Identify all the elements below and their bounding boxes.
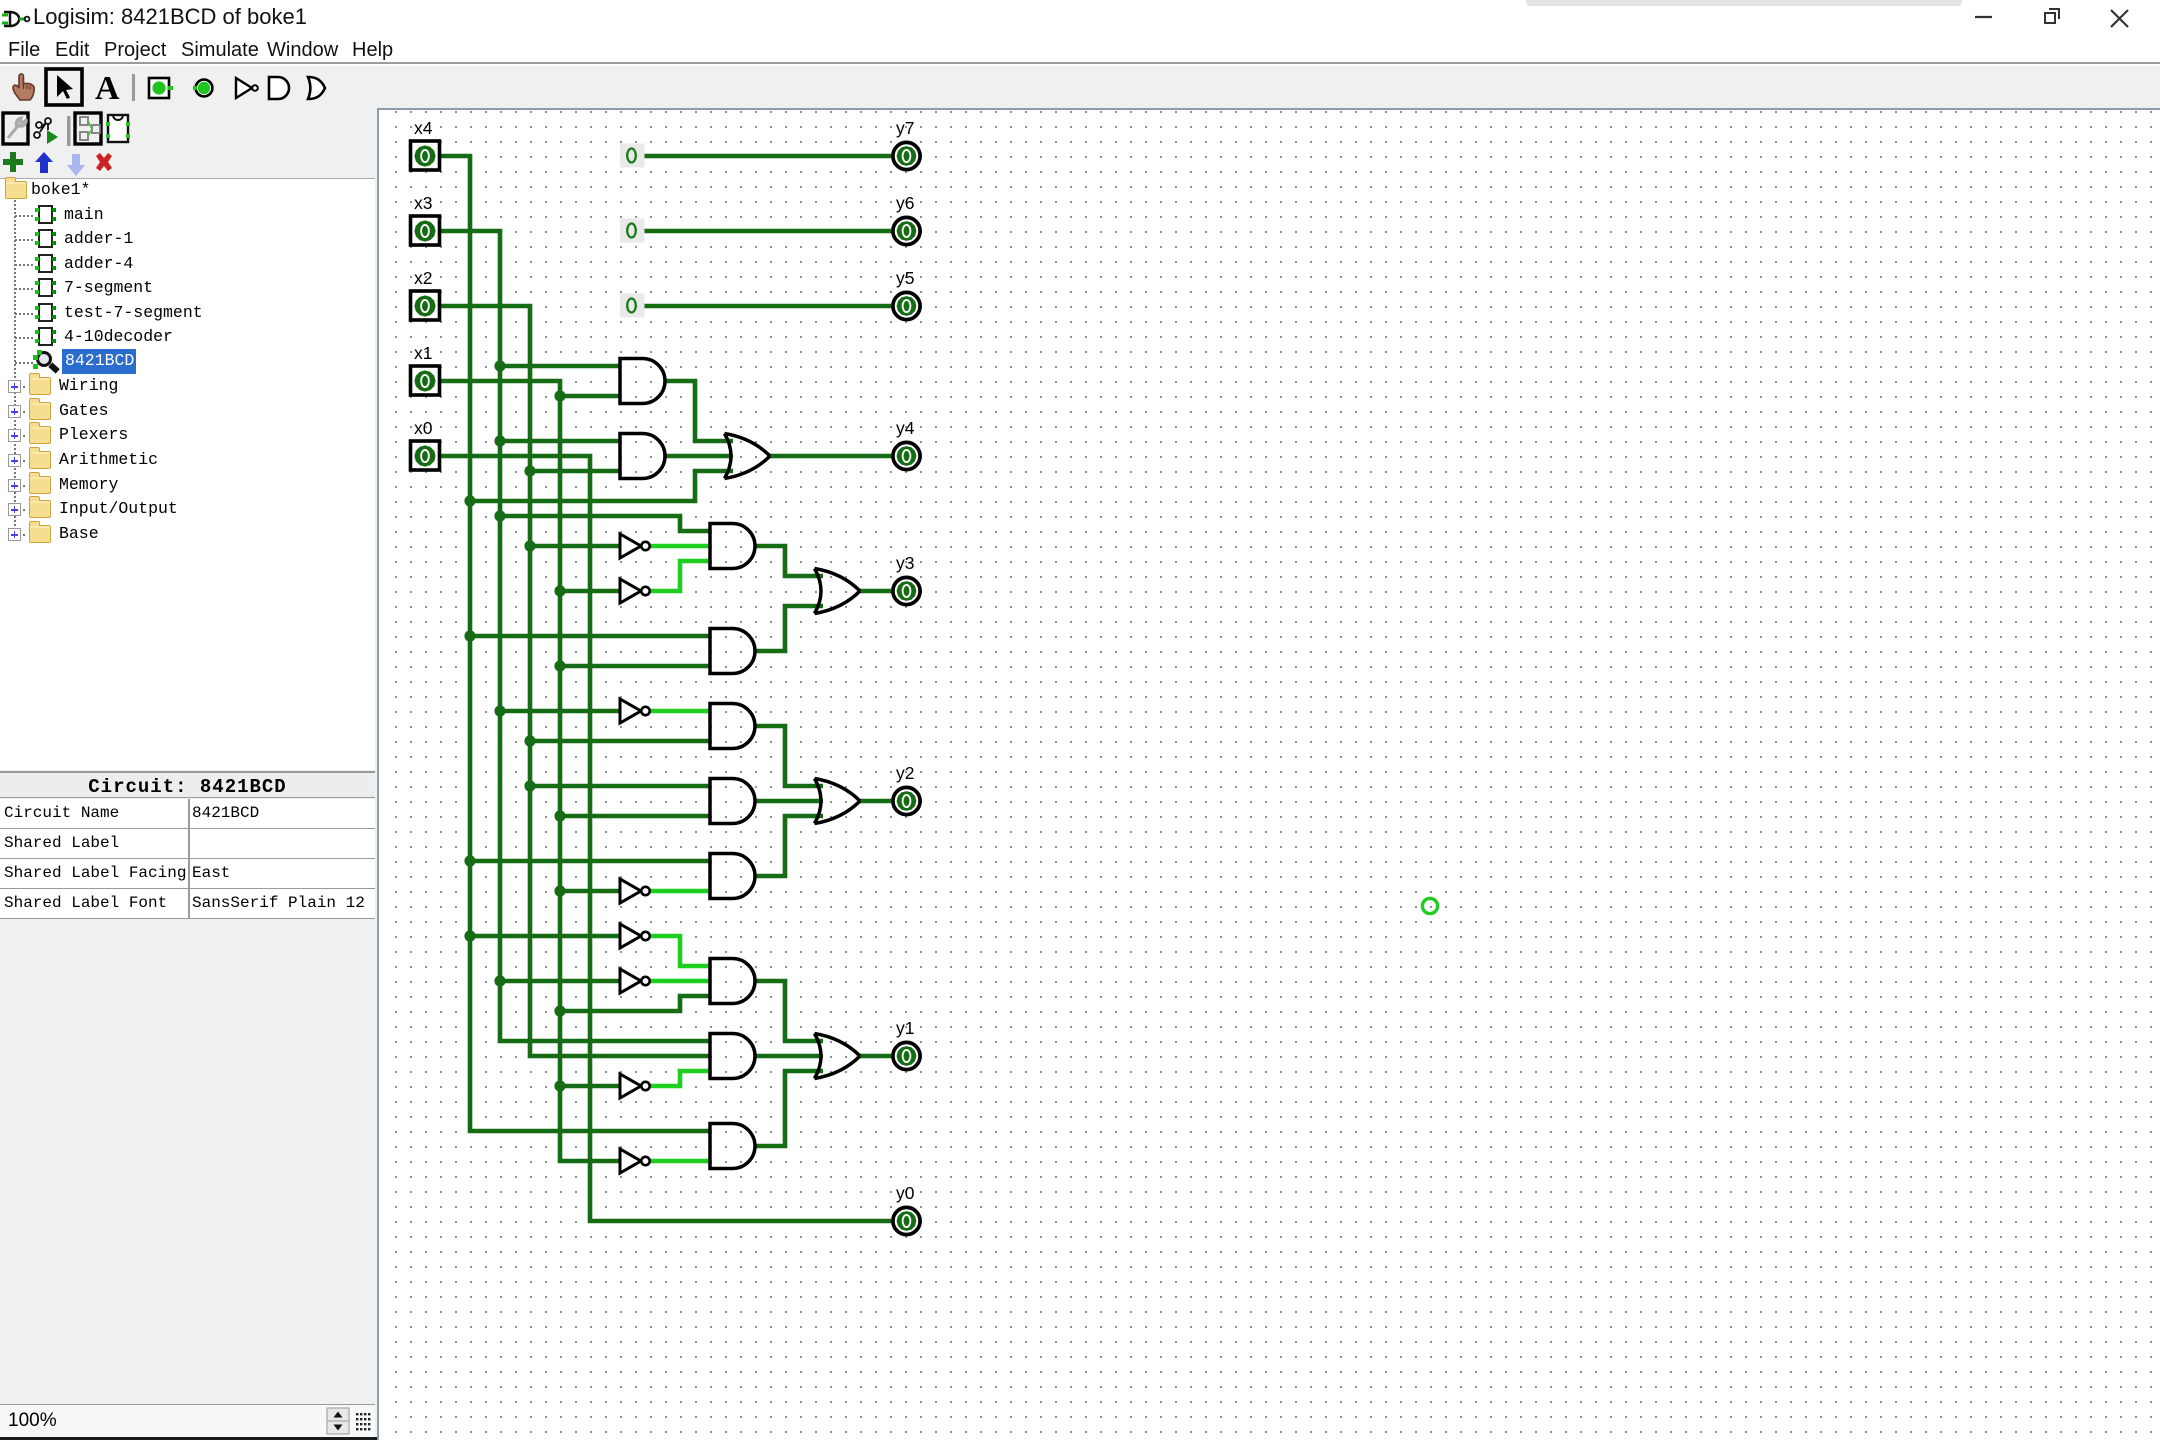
wire AND U3 output to OR U12 input 1 [755,546,823,576]
wire NOT N6 output (logic 1) to AND U8 input 2 [650,979,710,984]
svg-text:y0: y0 [896,1183,915,1203]
OR gate U14 [815,1034,861,1079]
constant 0 feeding y6 [620,219,645,243]
wire AND U9 output to OR U14 input 2 [755,1054,823,1059]
svg-text:x0: x0 [414,418,433,438]
svg-text:y3: y3 [896,553,914,573]
input pin x1 [411,343,440,395]
output pin y1 [893,1018,920,1070]
svg-text:A: A [95,70,120,107]
node x3 / wire net x3 (trunk at x=498 with branches) [440,231,710,1041]
junction dots on net x4 [464,495,475,941]
attribute table [0,799,375,919]
AND gate U2 [620,434,665,479]
constant 0 feeding y7 [620,144,645,168]
wire AND U7 output to OR U13 input 3 [755,816,823,876]
input pin x4 [411,118,440,170]
wire NOT N3 output (logic 1) to AND U5 input 1 [650,709,710,714]
wire NOT N2 output (logic 1) to AND U3 input 3 [650,561,710,591]
input pin x2 [411,268,440,320]
svg-text:x4: x4 [414,118,433,138]
svg-text:y1: y1 [896,1018,914,1038]
wire NOT N8 output (logic 1) to AND U10 input 2 [650,1159,710,1164]
wire OR U14 output to pin y1 [860,1054,891,1059]
output pin y6 [893,193,920,245]
main toolbar [0,66,2160,108]
NOT gate N7 [620,1074,650,1098]
title bar [0,0,2160,36]
AND gate U3 [710,524,755,569]
AND gate U9 [710,1034,755,1079]
svg-text:y7: y7 [896,118,914,138]
grid dots [387,110,2160,1440]
svg-text:y4: y4 [896,418,915,438]
svg-text:y6: y6 [896,193,914,213]
OR gate U12 [815,569,861,614]
wire AND U8 output to OR U14 input 1 [755,981,823,1041]
node x1 / wire net x1 (trunk at x=558 with branches) [440,381,710,1161]
wire AND U6 output to OR U13 input 2 [755,799,823,804]
project toolbar row [0,110,377,150]
node x0 / wire net x0 (trunk at x=588 direct to y0) [440,456,891,1221]
svg-text:x3: x3 [414,193,432,213]
svg-text:x2: x2 [414,268,432,288]
wire AND U1 output to OR U11 input 1 [665,381,733,441]
OR gate U13 [815,779,861,824]
wire NOT N5 output (logic 1) to AND U8 input 1 [650,936,710,966]
wire NOT N4 output (logic 1) to AND U7 input 2 [650,889,710,894]
output pin y5 [893,268,920,320]
output pin y7 [893,118,920,170]
explorer tree [0,178,375,770]
wire OR U11 output to pin y4 [770,454,891,459]
AND gate U4 [710,629,755,674]
AND gate U8 [710,959,755,1004]
output pin y4 [893,418,920,470]
attribute header [0,771,375,798]
wire constant to y6 [643,229,891,234]
output pin y2 [893,763,920,815]
wire AND U4 output to OR U12 input 2 [755,606,823,651]
AND gate U6 [710,779,755,824]
wire OR U12 output to pin y3 [860,589,891,594]
wire OR U13 output to pin y2 [860,799,891,804]
wire constant to y7 [643,154,891,159]
AND gate U10 [710,1124,755,1169]
input pin x3 [411,193,440,245]
node x4 / wire net x4 (pin x4 trunk at x=468 with branches) [440,156,733,1131]
NOT gate N1 [620,534,650,558]
wire constant to y5 [643,304,891,309]
NOT gate N6 [620,969,650,993]
junction dots on net x1 [554,390,565,1091]
wire NOT N7 output (logic 1) to AND U9 input 3 [650,1071,710,1086]
wire NOT N1 output (logic 1) to AND U3 input 2 [650,544,710,549]
NOT gate N5 [620,924,650,948]
NOT gate N3 [620,699,650,723]
NOT gate N8 [620,1149,650,1173]
junction dots on net x2 [524,465,535,791]
constant 0 feeding y5 [620,294,645,318]
add/move/remove row [0,150,377,178]
node x2 / wire net x2 (trunk at x=528 with branches) [440,306,710,1056]
wire AND U2 output to OR U11 input 2 [665,454,733,459]
svg-text:y2: y2 [896,763,914,783]
wire AND U10 output to OR U14 input 3 [755,1071,823,1146]
junction dots on net x3 [494,360,505,986]
svg-text:x1: x1 [414,343,432,363]
zoom control [0,1404,375,1437]
input pin x0 [411,418,440,470]
schematic canvas [377,108,2160,1440]
AND gate U5 [710,704,755,749]
NOT gate N4 [620,879,650,903]
OR gate U11 [725,434,771,479]
logisim app icon [2,5,32,33]
svg-text:y5: y5 [896,268,914,288]
left panel [0,108,377,1440]
AND gate U7 [710,854,755,899]
wire AND U5 output to OR U13 input 1 [755,726,823,786]
AND gate U1 [620,359,665,404]
stray wire endpoint marker [1422,898,1437,913]
NOT gate N2 [620,579,650,603]
output pin y3 [893,553,920,605]
menu bar [0,36,2160,64]
output pin y0 [893,1183,920,1235]
